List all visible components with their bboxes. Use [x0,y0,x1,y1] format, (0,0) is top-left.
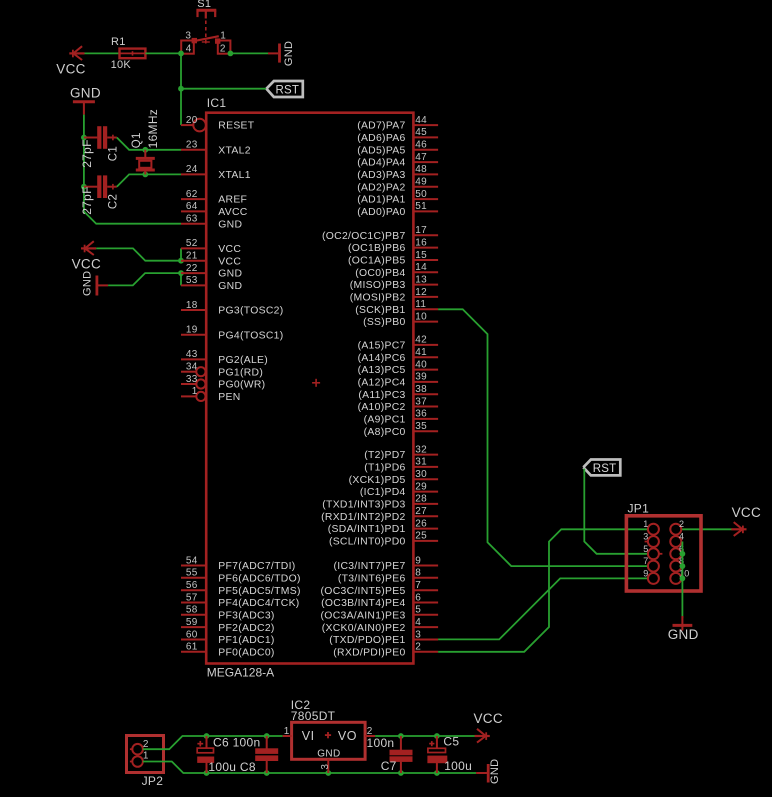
wire rail to IC1 pin 63 GND [84,211,181,223]
svg-text:31: 31 [415,457,427,468]
ground GND (bottom right) [476,772,487,774]
svg-text:S1: S1 [197,0,211,10]
wire JP2 pin 1 to GND rail [143,762,476,774]
svg-text:(OC1B)PB6: (OC1B)PB6 [348,243,406,254]
capacitor C2 [84,186,98,188]
node GND pin22 junction [178,270,184,276]
IC1 pin 24 XTAL1 [181,164,251,181]
svg-text:2: 2 [415,642,421,653]
wire IC1 PE1 to JP1 pin 9 [438,578,648,639]
svg-text:7: 7 [643,556,648,566]
svg-text:(XCK1)PD5: (XCK1)PD5 [349,475,406,486]
svg-text:(T2)PD7: (T2)PD7 [364,450,405,461]
node JP1 pin 10 junction [680,576,686,582]
ground GND (right of S1) [268,52,278,54]
svg-text:GND: GND [317,749,340,760]
svg-text:(OC3B/INT4)PE4: (OC3B/INT4)PE4 [321,598,405,609]
svg-text:52: 52 [186,238,198,249]
IC1 pin 57 PF4(ADC4/TCK) [181,592,300,609]
svg-text:49: 49 [415,177,427,188]
svg-text:17: 17 [415,225,427,236]
node C6 top [204,733,210,739]
svg-text:PG1(RD): PG1(RD) [218,367,263,378]
IC1 pin 12 (MOSI)PB2 [350,287,438,304]
IC1 pin 31 (T1)PD6 [364,457,438,474]
svg-text:MEGA128-A: MEGA128-A [207,666,274,680]
svg-text:VCC: VCC [732,505,761,520]
svg-text:C5: C5 [443,735,459,749]
IC1 pin 50 (AD1)PA1 [357,189,438,206]
IC1 pin 7 (OC3C/INT5)PE5 [321,580,439,597]
svg-text:50: 50 [415,189,427,200]
svg-text:63: 63 [186,214,198,225]
svg-text:2: 2 [679,519,684,529]
node S1 pin4 junction [178,51,184,57]
IC1 pin 15 (OC1A)PB5 [348,250,438,267]
IC1 pin 64 AVCC [181,201,248,218]
svg-text:AVCC: AVCC [218,207,247,218]
JP1 pin 1 [643,519,659,535]
svg-text:(SDA/INT1)PD1: (SDA/INT1)PD1 [328,524,406,535]
svg-text:9: 9 [415,555,421,566]
node JP1 pin 6 junction [680,551,686,557]
IC1 pin 55 PF6(ADC6/TDO) [181,568,301,585]
IC1 pin 49 (AD2)PA2 [357,177,438,194]
node C2 junction [81,184,87,190]
svg-text:21: 21 [186,251,198,262]
JP1 pin 8 [670,556,684,572]
svg-text:37: 37 [415,396,427,407]
svg-text:C1: C1 [107,146,119,161]
wire R1 to S1 pin 4 [145,52,181,54]
net flag RST (near JP1) [583,460,620,476]
IC1 pin 3 (TXD/PDO)PE1 [329,629,438,646]
svg-text:3: 3 [415,629,421,640]
svg-text:JP2: JP2 [142,774,164,788]
node C7 top [398,733,404,739]
IC1 pin 17 (OC2/OC1C)PB7 [322,225,438,242]
IC1 pin 23 XTAL2 [181,140,251,157]
svg-text:24: 24 [186,164,198,175]
IC1 pin 2 (RXD/PDI)PE0 [333,642,438,659]
svg-text:(AD3)PA3: (AD3)PA3 [357,170,405,181]
crystal Q1 16MHz [144,150,146,157]
svg-text:(A11)PC3: (A11)PC3 [358,390,405,401]
svg-text:8: 8 [415,568,421,579]
svg-text:12: 12 [415,287,427,298]
svg-text:(A12)PC4: (A12)PC4 [358,378,406,389]
wire RST flag to JP1 pin 5 [584,469,648,554]
svg-text:55: 55 [186,568,198,579]
svg-text:4: 4 [679,532,684,542]
capacitor C1 [84,137,98,139]
svg-text:5: 5 [643,544,648,554]
wire VCC to IC1 pins 52/21 [96,248,181,260]
svg-text:GND: GND [218,269,242,280]
svg-text:(TXD1/INT3)PD3: (TXD1/INT3)PD3 [322,500,405,511]
IC1 pin 30 (XCK1)PD5 [349,469,438,486]
svg-text:1: 1 [220,30,226,41]
IC1 pin 37 (A10)PC2 [358,396,439,413]
svg-text:(A13)PC5: (A13)PC5 [358,365,406,376]
capacitor C6 (polarized) [206,736,208,748]
svg-text:6: 6 [415,592,421,603]
IC1 pin 51 (AD0)PA0 [357,201,438,218]
svg-text:51: 51 [415,201,427,212]
svg-text:26: 26 [415,518,427,529]
IC2 pin 2 [365,735,375,737]
capacitor C7 [400,736,402,750]
svg-text:56: 56 [186,580,198,591]
svg-text:(OC3C/INT5)PE5: (OC3C/INT5)PE5 [321,586,406,597]
svg-text:14: 14 [415,262,427,273]
svg-text:(AD4)PA4: (AD4)PA4 [357,158,405,169]
svg-text:36: 36 [415,409,427,420]
svg-text:R1: R1 [111,36,126,48]
svg-text:54: 54 [186,555,198,566]
wire reset net vertical [180,53,182,125]
IC1 pin 5 (OC3A/AIN1)PE3 [321,605,439,622]
svg-text:11: 11 [415,299,426,310]
svg-text:45: 45 [415,127,427,138]
node C8 bottom [264,770,270,776]
IC1 pin 54 PF7(ADC7/TDI) [181,555,296,572]
svg-text:64: 64 [186,201,198,212]
svg-text:(AD7)PA7: (AD7)PA7 [357,121,405,132]
svg-text:41: 41 [415,347,427,358]
IC1 pin 41 (A14)PC6 [358,347,439,364]
svg-text:61: 61 [186,642,198,653]
svg-text:PF1(ADC1): PF1(ADC1) [218,635,274,646]
svg-text:(OC3A/AIN1)PE3: (OC3A/AIN1)PE3 [321,610,406,621]
node IC2 pin3 bottom [325,770,331,776]
svg-text:VCC: VCC [56,61,85,76]
svg-text:100n: 100n [367,736,395,750]
JP1 pin 9 [643,568,659,584]
IC1 pin 10 (SS)PB0 [363,311,438,328]
svg-text:20: 20 [186,115,198,126]
svg-text:47: 47 [415,152,427,163]
wire GND to IC1 pins 22/53 [108,273,181,285]
IC1 pin 42 (A15)PC7 [358,335,439,352]
svg-text:100u C8: 100u C8 [208,760,255,774]
JP1 pin 4 [670,532,684,548]
svg-text:44: 44 [415,115,427,126]
pin header JP2 [127,736,164,773]
svg-text:(RXD/PDI)PE0: (RXD/PDI)PE0 [333,647,405,658]
svg-text:XTAL1: XTAL1 [218,170,251,181]
wire JP1 GND column [681,542,683,619]
svg-text:(AD0)PA0: (AD0)PA0 [357,207,405,218]
svg-text:27pF: 27pF [80,186,94,215]
svg-text:18: 18 [186,300,198,311]
IC1 pin 8 (T3/INT6)PE6 [338,568,438,585]
node C5 bottom [434,770,440,776]
svg-text:(MOSI)PB2: (MOSI)PB2 [350,293,406,304]
svg-text:1: 1 [143,751,149,762]
svg-text:IC1: IC1 [207,96,227,110]
svg-text:59: 59 [186,617,198,628]
svg-text:PF4(ADC4/TCK): PF4(ADC4/TCK) [218,598,299,609]
svg-text:43: 43 [186,349,198,360]
node C8 top [264,733,270,739]
IC1 pin 34 PG1(RD) [181,362,263,379]
op-amp ... actually microcontroller IC1 MEGA128-A body [206,113,413,664]
svg-text:23: 23 [186,140,198,151]
IC1 pin 44 (AD7)PA7 [357,115,438,132]
svg-text:RESET: RESET [218,121,254,132]
wire to RST flag [181,88,266,90]
svg-text:C7: C7 [381,759,397,773]
IC1 pin 38 (A11)PC3 [358,384,438,401]
JP1 pin 10 [670,568,689,584]
JP1 pin 5 [643,544,659,560]
IC1 pin 48 (AD3)PA3 [357,164,438,181]
IC1 pin 62 AREF [181,189,247,206]
IC1 pin 43 PG2(ALE) [181,349,268,366]
IC1 pin 27 (RXD1/INT2)PD2 [321,506,438,523]
IC1 pin 32 (T2)PD7 [364,444,438,461]
svg-text:13: 13 [415,274,427,285]
svg-text:AREF: AREF [218,195,247,206]
svg-text:3: 3 [320,764,331,770]
node VCC pin21 junction [178,258,184,264]
IC1 origin cross [312,382,320,384]
svg-text:10: 10 [415,311,427,322]
JP1 pin 6 [670,544,684,560]
IC1 pin 59 PF2(ADC2) [181,617,275,634]
resistor R1 [120,49,146,59]
svg-text:PG3(TOSC2): PG3(TOSC2) [218,306,283,317]
node XTAL1 junction [142,172,148,178]
node JP1 pin 8 junction [680,563,686,569]
svg-text:PF7(ADC7/TDI): PF7(ADC7/TDI) [218,561,295,572]
JP1 pin 2 [670,519,684,535]
svg-text:(T1)PD6: (T1)PD6 [364,463,405,474]
IC1 pin 33 PG0(WR) [181,374,265,391]
IC1 pin 63 GND [181,214,242,231]
svg-text:PF0(ADC0): PF0(ADC0) [218,647,274,658]
svg-text:40: 40 [415,359,427,370]
IC1 pin 16 (OC1B)PB6 [348,237,438,254]
IC1 pin 28 (TXD1/INT3)PD3 [322,494,438,511]
svg-text:VCC: VCC [474,711,503,726]
svg-text:62: 62 [186,189,198,200]
svg-text:PF2(ADC2): PF2(ADC2) [218,623,274,634]
wire C2 to XTAL1 net [117,174,181,186]
svg-text:100u: 100u [444,759,472,773]
svg-text:(OC2/OC1C)PB7: (OC2/OC1C)PB7 [322,231,406,242]
IC1 pin 46 (AD5)PA5 [357,140,438,157]
svg-text:(IC1)PD4: (IC1)PD4 [360,487,406,498]
IC1 pin 18 PG3(TOSC2) [181,300,283,317]
svg-text:29: 29 [415,481,427,492]
svg-text:VCC: VCC [72,257,101,272]
IC1 pin 40 (A13)PC5 [358,359,439,376]
svg-text:(SCL/INT0)PD0: (SCL/INT0)PD0 [329,537,406,548]
IC1 pin 21 VCC [181,251,241,268]
JP1 pin 7 [643,556,659,572]
wire S1 pin2 to GND [230,52,268,54]
svg-text:16MHz: 16MHz [146,109,160,149]
svg-text:(AD5)PA5: (AD5)PA5 [357,145,405,156]
power symbol VCC (right of JP1) [731,528,746,530]
IC1 pin 47 (AD4)PA4 [357,152,438,169]
svg-text:PF6(ADC6/TDO): PF6(ADC6/TDO) [218,573,300,584]
svg-text:RST: RST [593,463,617,475]
svg-text:GND: GND [218,281,242,292]
svg-text:Q1: Q1 [131,132,143,148]
svg-text:27: 27 [415,506,427,517]
svg-text:42: 42 [415,335,427,346]
svg-text:33: 33 [186,374,198,385]
svg-text:3: 3 [185,30,191,41]
svg-text:19: 19 [186,325,198,336]
IC1 pin 35 (A8)PC0 [364,421,438,438]
svg-text:(TXD/PDO)PE1: (TXD/PDO)PE1 [329,635,405,646]
svg-text:4: 4 [186,44,192,55]
svg-text:C6 100n: C6 100n [213,736,260,750]
IC1 pin 4 (XCK0/AIN0)PE2 [322,617,438,634]
svg-text:28: 28 [415,494,427,505]
svg-text:VI: VI [302,729,315,743]
svg-text:JP1: JP1 [628,502,650,516]
power symbol VCC (mid left) [81,247,96,249]
JP2 pin 1 [130,751,149,767]
svg-text:57: 57 [186,592,198,603]
svg-text:(A8)PC0: (A8)PC0 [364,427,406,438]
svg-text:(A10)PC2: (A10)PC2 [358,402,406,413]
JP1 pin 3 stub [645,541,648,543]
svg-text:25: 25 [415,531,427,542]
svg-text:9: 9 [643,568,648,578]
svg-text:1: 1 [284,726,290,737]
svg-text:(A14)PC6: (A14)PC6 [358,353,406,364]
power symbol VCC (bottom) [475,735,490,737]
svg-text:35: 35 [415,421,427,432]
svg-text:(A9)PC1: (A9)PC1 [364,415,406,426]
power symbol VCC (top left) [69,52,84,54]
svg-text:(OC0)PB4: (OC0)PB4 [355,268,405,279]
svg-text:4: 4 [415,617,421,628]
node reset junction [178,86,184,92]
capacitor C8 [266,736,268,749]
wire IC1 PB1 SCK to JP1 pin 7 [438,309,648,566]
svg-text:VO: VO [338,729,357,743]
svg-text:PG4(TOSC1): PG4(TOSC1) [218,330,283,341]
IC1 pin 45 (AD6)PA6 [357,127,438,144]
svg-text:(A15)PC7: (A15)PC7 [358,341,406,352]
svg-text:GND: GND [283,41,295,66]
svg-text:16: 16 [415,237,427,248]
IC1 pin 29 (IC1)PD4 [360,481,438,498]
svg-text:(AD1)PA1: (AD1)PA1 [357,195,405,206]
node C1 junction [81,135,87,141]
IC1 pin 20 RESET [181,115,255,132]
svg-text:C2: C2 [107,194,119,209]
svg-text:3: 3 [643,532,648,542]
JP1 pin 3 [643,532,659,548]
JP2 pin 2 [130,739,149,754]
svg-text:GND: GND [82,271,94,296]
node C6 bottom [204,770,210,776]
IC1 pin 52 VCC [181,238,241,255]
svg-text:46: 46 [415,140,427,151]
svg-text:1: 1 [192,386,198,397]
IC1 pin 9 (IC3/INT7)PE7 [334,555,439,572]
IC1 pin 6 (OC3B/INT4)PE4 [321,592,438,609]
svg-text:(OC1A)PB5: (OC1A)PB5 [348,256,406,267]
IC1 pin 58 PF3(ADC3) [181,605,275,622]
svg-text:60: 60 [186,629,198,640]
IC1 pin 1 PEN [181,386,241,403]
IC1 pin 14 (OC0)PB4 [355,262,438,279]
svg-text:RST: RST [276,84,300,96]
svg-text:(SCK)PB1: (SCK)PB1 [355,305,405,316]
net flag RST (top) [266,81,302,97]
svg-text:(T3/INT6)PE6: (T3/INT6)PE6 [338,573,406,584]
svg-text:1: 1 [643,519,648,529]
node XTAL2 junction [142,147,148,153]
svg-text:38: 38 [415,384,427,395]
svg-text:(AD2)PA2: (AD2)PA2 [357,182,405,193]
svg-text:GND: GND [70,86,101,101]
IC1 pin 36 (A9)PC1 [364,409,438,426]
svg-text:7: 7 [415,580,421,591]
IC2 pin 3 [327,759,329,773]
svg-text:PG0(WR): PG0(WR) [218,380,265,391]
svg-text:GND: GND [489,759,501,784]
svg-text:5: 5 [415,605,421,616]
IC1 pin 13 (MISO)PB3 [350,274,438,291]
IC1 pin 61 PF0(ADC0) [181,642,275,659]
IC1 pin 11 (SCK)PB1 [355,299,438,316]
svg-text:PF3(ADC3): PF3(ADC3) [218,610,274,621]
node C7 bottom [398,770,404,776]
wire IC2 VO to VCC [375,735,475,737]
wire GND down left rail [83,115,85,212]
svg-text:(RXD1/INT2)PD2: (RXD1/INT2)PD2 [321,512,405,523]
svg-text:30: 30 [415,469,427,480]
svg-text:22: 22 [186,263,198,274]
svg-text:39: 39 [415,372,427,383]
svg-text:32: 32 [415,444,427,455]
svg-text:(IC3/INT7)PE7: (IC3/INT7)PE7 [334,561,406,572]
IC1 pin 26 (SDA/INT1)PD1 [328,518,438,535]
svg-text:PG2(ALE): PG2(ALE) [218,355,268,366]
svg-text:34: 34 [186,362,198,373]
capacitor C5 (polarized) [436,736,438,748]
ground GND (below JP1) [681,616,683,631]
svg-text:10K: 10K [111,59,132,71]
JP1 pin 5 stub [659,553,663,555]
IC1 pin 22 GND [181,263,242,280]
svg-text:48: 48 [415,164,427,175]
svg-text:27pF: 27pF [80,139,94,168]
wire C1 to XTAL2 net [117,138,181,150]
svg-text:(SS)PB0: (SS)PB0 [363,317,406,328]
IC1 pin 60 PF1(ADC1) [181,629,275,646]
IC1 pin 56 PF5(ADC5/TMS) [181,580,301,597]
svg-text:VCC: VCC [218,244,241,255]
IC1 pin 19 PG4(TOSC1) [181,325,283,342]
svg-text:GND: GND [668,627,699,642]
svg-text:2: 2 [220,44,226,55]
node C5 top [434,733,440,739]
IC1 pin 39 (A12)PC4 [358,372,439,389]
svg-text:XTAL2: XTAL2 [218,145,251,156]
wire VCC to R1 [85,52,120,54]
